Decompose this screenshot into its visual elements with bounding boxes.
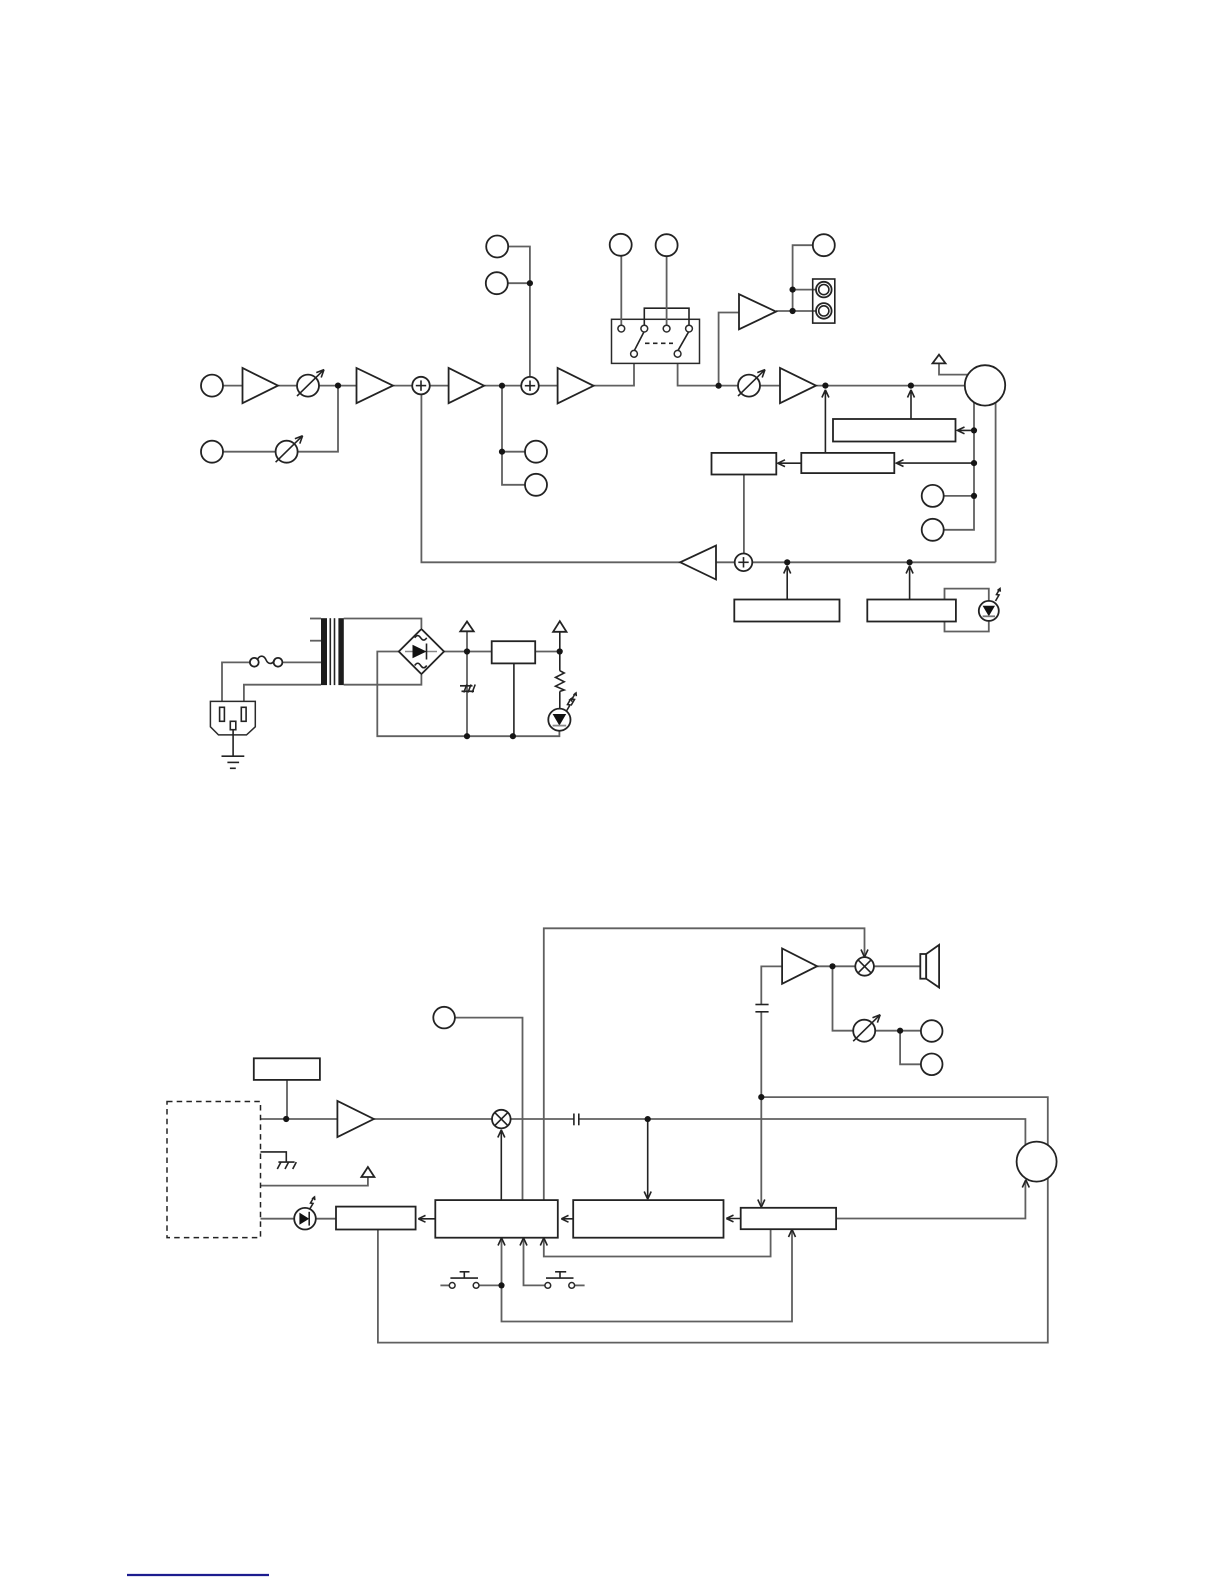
tape jack J6 bbox=[486, 272, 508, 294]
wire: output circle right drop to feedback line bbox=[995, 385, 997, 562]
switch contact c6 bbox=[674, 350, 681, 357]
potentiometer VR1 bbox=[297, 370, 324, 397]
wire: feedback line right section bbox=[751, 561, 996, 563]
junction bbox=[335, 383, 341, 389]
switch SW1 lever b bbox=[678, 331, 689, 351]
junction bbox=[645, 1116, 651, 1122]
junction bbox=[499, 449, 505, 455]
summing node S3 bbox=[735, 554, 753, 572]
wire: preset jack 1 stub bbox=[933, 495, 974, 497]
wire: secondary top to bridge AC input bbox=[344, 619, 422, 629]
switch contact c3 bbox=[663, 325, 670, 332]
arrow: control block up into mute modulator bbox=[498, 1130, 505, 1200]
block B1 bbox=[734, 600, 839, 622]
arrow: up into control block bottom 3 bbox=[540, 1238, 547, 1246]
wire: feedback line through inverting amp to input summing node bbox=[421, 386, 736, 563]
switch SW1 body bbox=[612, 319, 700, 363]
arrow: block B2 up into feedback line bbox=[906, 566, 913, 600]
amplifier A1 bbox=[243, 368, 279, 403]
junction bbox=[758, 1094, 764, 1100]
wire: power amp input drop bbox=[761, 966, 782, 1206]
wire: head block drop to main line bbox=[286, 1080, 288, 1119]
summing node S1 bbox=[412, 377, 430, 395]
wire: bridge negative output to ground rail bbox=[377, 652, 559, 737]
wire: control loop up and over to speaker mute bbox=[544, 928, 865, 1200]
speaker modulator X2 bbox=[855, 957, 874, 976]
arrow: feed into middle block bbox=[896, 460, 974, 467]
junction bbox=[829, 963, 835, 969]
wire: secondary bottom to bridge AC input bbox=[344, 675, 422, 685]
arrow: block B into control block bbox=[561, 1215, 573, 1222]
wire: control block drop to button 2 bbox=[524, 1238, 546, 1286]
wire: rec amp output to top jack bbox=[776, 245, 814, 311]
capacitor C2 bbox=[755, 1005, 768, 1012]
block B2 bbox=[867, 600, 956, 622]
tape jack J5 bbox=[486, 236, 508, 258]
junction bbox=[283, 1116, 289, 1122]
rec phono jack P1 bbox=[816, 282, 832, 298]
wire: feedback loop right side to block D bbox=[378, 1097, 1048, 1343]
leaf block bbox=[336, 1207, 416, 1230]
wire: rec jack 2 stub bbox=[793, 310, 817, 312]
input connector J2 bbox=[201, 441, 223, 463]
speaker LS1 bbox=[920, 945, 939, 988]
rec jack plate bbox=[813, 279, 835, 323]
chassis ground symbol on B+ rail bbox=[460, 685, 475, 693]
block R-mid bbox=[801, 453, 894, 473]
rec amplifier A5 bbox=[739, 294, 776, 329]
power amplifier A9 bbox=[782, 949, 817, 984]
mute modulator X1 bbox=[492, 1110, 511, 1129]
wire: B+ rail with chassis bond bbox=[466, 631, 468, 736]
junction bbox=[510, 733, 516, 739]
wire: regulated output down to indicator bbox=[559, 632, 561, 710]
arrow: middle block into small block bbox=[778, 460, 802, 467]
wire: output circle left drop with taps bbox=[944, 385, 974, 529]
junction bbox=[499, 383, 505, 389]
wire: primary tap stub 2 bbox=[310, 640, 321, 642]
junction bbox=[971, 427, 977, 433]
junction bbox=[498, 1282, 504, 1288]
head block bbox=[254, 1058, 320, 1080]
rec jack J9 bbox=[813, 234, 835, 256]
arrow: block A into block B bbox=[726, 1215, 740, 1222]
wire: main signal line from input jack to switch bbox=[212, 357, 634, 386]
wire: selector jack 2 drop bbox=[666, 245, 668, 328]
junction bbox=[790, 287, 796, 293]
inverting amplifier A7 bbox=[680, 546, 716, 580]
junction bbox=[971, 460, 977, 466]
wire: regulator ground leg bbox=[513, 663, 515, 736]
junction bbox=[527, 280, 533, 286]
wire: button 1 to junction bbox=[479, 1284, 502, 1286]
junction bbox=[971, 493, 977, 499]
amplifier A6 bbox=[780, 368, 816, 403]
amplifier A3 bbox=[449, 368, 485, 403]
wire: rec jack 1 stub bbox=[793, 289, 817, 291]
switch SW1 gang link bbox=[645, 342, 673, 344]
junction bbox=[790, 308, 796, 314]
push button PB1 bbox=[449, 1272, 479, 1289]
potentiometer VR4 bbox=[276, 436, 303, 463]
switch contact c5 bbox=[631, 350, 638, 357]
wire: upper monitor jack stub bbox=[502, 451, 536, 453]
supply arrow symbol bbox=[933, 355, 946, 364]
wire: bridge positive output to regulator bbox=[443, 651, 560, 653]
junction dots power supply bbox=[464, 648, 563, 739]
monitor jack J3 bbox=[525, 441, 547, 463]
input connector J1 bbox=[201, 375, 223, 397]
junction dots bottom diagram bbox=[283, 963, 903, 1288]
hyperlink rule bbox=[127, 1574, 269, 1576]
wire: headphone jack 2 branch bbox=[900, 1031, 932, 1065]
bias knob circle bbox=[433, 1007, 455, 1029]
preset jack J10 bbox=[922, 485, 944, 507]
fuse F1 bbox=[250, 656, 282, 667]
wire: control block drop to buttons and bottom run bbox=[502, 1231, 793, 1322]
capacitor C1 bbox=[574, 1114, 579, 1126]
LED D1 bbox=[979, 589, 1001, 621]
arrow: main line down into block B bbox=[644, 1119, 651, 1199]
amplifier A4 bbox=[558, 368, 594, 403]
junction bbox=[464, 733, 470, 739]
wire: tape play jack 2 stub bbox=[497, 282, 530, 284]
playback amplifier A8 bbox=[337, 1101, 373, 1137]
potentiometer VR2 bbox=[738, 370, 765, 397]
system control block bbox=[435, 1200, 558, 1238]
output driver circle M1 bbox=[965, 365, 1005, 405]
junction bbox=[716, 383, 722, 389]
wire: button 2 right stub bbox=[575, 1284, 585, 1286]
supply arrow symbol at B+ bbox=[460, 622, 473, 632]
earth ground symbol bbox=[222, 730, 245, 769]
wire: power amp output to speaker bbox=[817, 965, 920, 967]
headphone jack J12 bbox=[921, 1020, 943, 1042]
wire: chassis bond stub from deck bbox=[261, 1152, 287, 1162]
chassis ground symbol at deck bbox=[277, 1162, 296, 1169]
arrow: top-right block up into main line bbox=[908, 390, 915, 419]
block R-top bbox=[833, 419, 956, 442]
wire: selector jack 1 drop bbox=[620, 245, 622, 329]
arrow: block A up into motor bbox=[1022, 1180, 1029, 1188]
wire: control block down to feedback summing node bbox=[743, 475, 745, 555]
rec phono jack P2 bbox=[816, 303, 832, 319]
wire: tape play jack down to summing node bbox=[497, 247, 530, 386]
arrow: middle block up into main line bbox=[822, 390, 829, 453]
summing node S2 bbox=[521, 377, 539, 395]
preset jack J11 bbox=[922, 519, 944, 541]
arrow: bottom run up into block A bbox=[789, 1229, 796, 1237]
cassette deck dashed enclosure bbox=[167, 1102, 261, 1238]
arrow: control block into leaf block bbox=[418, 1215, 435, 1222]
selector jack J8 bbox=[656, 234, 678, 256]
wire: LED loop around block bbox=[945, 589, 989, 632]
wire: headphone branch bbox=[833, 966, 932, 1030]
arrow: feed into top-right block bbox=[957, 427, 974, 434]
wire: monitor branch down from main line to two jacks bbox=[502, 386, 536, 485]
wire: bias knob to control block bbox=[444, 1018, 522, 1201]
arrow: up into control block bottom 1 bbox=[498, 1238, 505, 1246]
junction bbox=[557, 648, 563, 654]
supply arrow symbol at deck bbox=[361, 1167, 374, 1177]
arrow: down into block A bbox=[758, 1200, 765, 1208]
potentiometer VR3 bbox=[853, 1015, 880, 1042]
switch SW1 lever a bbox=[634, 331, 644, 351]
wire: input 2 through level pot up to junction bbox=[212, 386, 338, 452]
switch contact c1 bbox=[618, 325, 625, 332]
junction bbox=[897, 1028, 903, 1034]
wire: supply stub from deck bbox=[261, 1178, 368, 1186]
transformer T1 bbox=[321, 618, 344, 685]
supply arrow symbol at regulated output bbox=[553, 621, 566, 632]
wire: supply arrow into output circle bbox=[939, 363, 968, 374]
switch contact c2 bbox=[641, 325, 648, 332]
motor M2 bbox=[1017, 1142, 1057, 1182]
wire: AC line live from plug through fuse to transformer bbox=[222, 662, 321, 707]
switch contact c4 bbox=[686, 325, 693, 332]
arrow: mute control down into speaker modulator bbox=[861, 950, 868, 958]
wire: control block run under to block A bbox=[544, 1229, 771, 1256]
push button PB2 bbox=[545, 1272, 575, 1289]
headphone jack J13 bbox=[921, 1054, 943, 1076]
switch SW1 bracket bbox=[644, 308, 689, 328]
junction bbox=[784, 559, 790, 565]
selector jack J7 bbox=[610, 234, 632, 256]
wire: deck to leaf LED bbox=[261, 1218, 337, 1220]
block R-small bbox=[712, 453, 777, 475]
junction bbox=[908, 383, 914, 389]
wire: rec-out branch up from main line through amp bbox=[719, 313, 739, 386]
AC inlet plug bbox=[210, 701, 255, 735]
block A motor drive bbox=[741, 1208, 836, 1229]
junction dots top diagram bbox=[335, 280, 977, 565]
amplifier A2 bbox=[357, 368, 394, 403]
resistor R1 bbox=[556, 671, 565, 692]
junction bbox=[907, 559, 913, 565]
LED D4 rec indicator bbox=[294, 1197, 316, 1229]
arrow: block B1 up into feedback line bbox=[784, 566, 791, 600]
voltage regulator IC1 bbox=[492, 641, 536, 663]
wire: button 1 left stub bbox=[440, 1284, 449, 1286]
LED D3 power indicator bbox=[548, 693, 576, 731]
servo block B bbox=[573, 1200, 723, 1238]
wire: switch output down to main line and on to output circle bbox=[678, 357, 966, 386]
wire: main playback line from head block to motor bbox=[261, 1119, 1026, 1162]
wire: AC line neutral from plug to transformer bbox=[244, 685, 321, 708]
arrow: up into control block bottom 2 bbox=[520, 1238, 527, 1246]
wire: primary tap stub 1 bbox=[310, 618, 321, 620]
wire: block A output to motor bbox=[836, 1181, 1025, 1219]
junction bbox=[464, 648, 470, 654]
junction bbox=[822, 383, 828, 389]
bridge rectifier D2 bbox=[399, 629, 444, 674]
monitor jack J4 bbox=[525, 474, 547, 496]
